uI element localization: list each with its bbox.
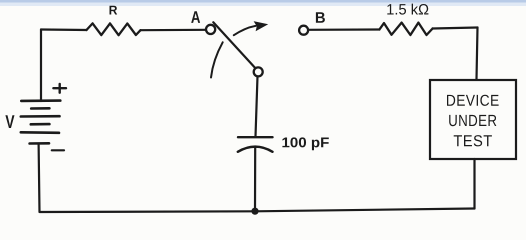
battery V plate short 2 [31, 123, 50, 126]
resistor R zigzag [87, 23, 141, 35]
node B terminal circle [299, 26, 308, 35]
wire battery bottom stem [37, 144, 40, 212]
switch motion arc lower segment [211, 42, 223, 77]
battery plus sign [53, 87, 66, 89]
resistor 1.5k zigzag [379, 23, 432, 35]
switch motion arrowhead [254, 21, 269, 31]
switch motion arrow curve [234, 26, 256, 35]
device under test box [430, 80, 516, 159]
label 1.5 kΩ [387, 4, 428, 15]
label 100 pF [282, 137, 328, 150]
wire capacitor bottom to junction [254, 148, 256, 211]
switch arm [213, 22, 255, 68]
wire top-left horizontal [41, 28, 87, 31]
label A [191, 11, 200, 23]
label TEST [454, 135, 492, 146]
battery V plate long 3 [21, 131, 59, 134]
battery V bottom plate [30, 142, 49, 145]
node A terminal circle [206, 25, 215, 34]
wire device box bottom down [473, 159, 475, 209]
label R [110, 6, 118, 15]
wire node B to resistor 1.5k [308, 28, 380, 30]
battery V plate long 1 [21, 99, 60, 102]
wire resistor R to node A [141, 29, 207, 32]
label V [5, 115, 14, 128]
label UNDER [449, 115, 496, 126]
wire resistor 1.5k to corner [433, 28, 478, 29]
battery V plate long 2 [21, 115, 60, 118]
battery V plate short 1 [31, 107, 49, 110]
junction dot [251, 208, 258, 215]
wire left vertical (battery top to top wire) [40, 30, 42, 102]
wire corner down to device box top [477, 28, 478, 80]
battery minus sign [52, 149, 64, 151]
switch pole terminal circle [254, 67, 263, 76]
label B [316, 12, 325, 23]
wire switch pole to capacitor top [256, 76, 258, 136]
label DEVICE [447, 95, 499, 106]
capacitor C 100pF curved bottom plate [238, 147, 273, 152]
wire bottom return [40, 209, 475, 213]
capacitor C 100pF top plate [238, 136, 273, 138]
